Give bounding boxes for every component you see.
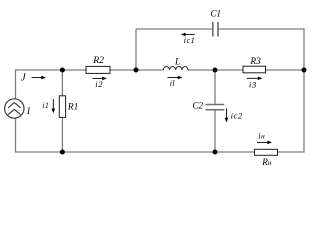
wire bottom left segment bbox=[16, 151, 255, 153]
inductor L bbox=[163, 66, 188, 70]
node F bottom-C2 junction bbox=[213, 150, 218, 155]
wire R1 branch lower bbox=[61, 117, 63, 152]
current source I bbox=[5, 99, 24, 118]
capacitor C1 bbox=[213, 22, 218, 37]
svg-text:C1: C1 bbox=[211, 9, 222, 19]
node A row2-R1 junction bbox=[60, 68, 65, 73]
wire right vertical bbox=[303, 28, 305, 152]
wire left vertical upper bbox=[15, 69, 17, 98]
resistor R2 bbox=[86, 66, 110, 73]
node C row2-C2 junction bbox=[213, 68, 218, 73]
arrow i3 bbox=[247, 77, 263, 81]
svg-text:i2: i2 bbox=[95, 79, 103, 89]
svg-text:R1: R1 bbox=[67, 102, 79, 113]
resistor R3 bbox=[243, 66, 266, 73]
wire C2 branch lower bbox=[214, 110, 216, 152]
wire top C1 right segment bbox=[219, 28, 304, 30]
svg-text:I: I bbox=[26, 106, 31, 116]
capacitor C2 bbox=[206, 105, 225, 110]
svg-text:il: il bbox=[170, 79, 176, 88]
arrow ic2 bbox=[225, 109, 229, 123]
svg-text:Rн: Rн bbox=[261, 157, 272, 167]
svg-text:L: L bbox=[174, 58, 180, 68]
wire row2 L to R3 bbox=[188, 69, 243, 71]
node E bottom-R1 junction bbox=[60, 150, 65, 155]
svg-text:iн: iн bbox=[258, 131, 265, 141]
wire left vertical lower bbox=[15, 119, 17, 153]
svg-text:R3: R3 bbox=[249, 57, 261, 67]
wire bottom right segment bbox=[278, 151, 305, 153]
wire row2 R3 to right bbox=[266, 69, 305, 71]
node B row2-C1 junction bbox=[134, 68, 139, 73]
wire row2 left bbox=[16, 69, 87, 71]
svg-text:R2: R2 bbox=[92, 55, 104, 66]
wire top C1 left segment bbox=[136, 28, 212, 30]
svg-text:i1: i1 bbox=[42, 101, 49, 110]
arrow i1 bbox=[52, 99, 56, 113]
wire C2 branch upper bbox=[214, 70, 216, 105]
svg-text:J: J bbox=[21, 72, 27, 83]
svg-text:ic1: ic1 bbox=[184, 36, 196, 45]
svg-text:i3: i3 bbox=[249, 79, 257, 89]
resistor R1 bbox=[59, 96, 65, 118]
svg-text:ic2: ic2 bbox=[231, 111, 243, 121]
arrow in bbox=[257, 141, 272, 145]
node D row2-right junction bbox=[302, 68, 307, 73]
resistor Rn bbox=[255, 149, 278, 155]
arrow ic1 bbox=[181, 33, 195, 37]
wire C1 branch vertical bbox=[135, 29, 137, 70]
svg-text:C2: C2 bbox=[193, 101, 204, 111]
arrow i2 bbox=[93, 77, 107, 81]
arrow il bbox=[168, 76, 183, 80]
wire row2 R2 to L bbox=[110, 69, 164, 71]
wire R1 branch upper bbox=[61, 70, 63, 96]
arrow J bbox=[32, 76, 47, 80]
